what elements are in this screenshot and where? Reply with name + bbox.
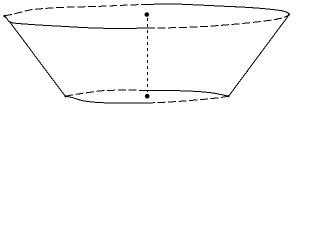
bottom ellipse lower-right arc (dashed, hidden rim) bbox=[147, 96, 229, 103]
junction blob at bottom ellipse right tip bbox=[227, 95, 229, 97]
bottom ellipse lower-left arc (solid rim) bbox=[65, 96, 147, 103]
top ellipse upper-right arc (solid rim) bbox=[147, 4, 290, 14]
junction blob at top ellipse right tip bbox=[288, 13, 290, 15]
central axis (dashed) bbox=[147, 18, 149, 92]
top ellipse upper-left arc (dashed, hidden rim) bbox=[4, 4, 147, 16]
junction blob at bottom ellipse left tip bbox=[64, 95, 66, 97]
top center dot bbox=[145, 12, 150, 17]
left slant side of frustum bbox=[10, 22, 66, 97]
right slant side of frustum bbox=[229, 14, 290, 96]
bottom ellipse upper-right arc (solid rim) bbox=[147, 90, 229, 96]
bottom ellipse upper-left arc (dashed, hidden rim) bbox=[65, 90, 147, 96]
bottom center dot bbox=[145, 94, 150, 99]
top ellipse lower-right arc (dashed, hidden rim) bbox=[147, 14, 290, 28]
top ellipse lower-left arc (solid rim) bbox=[4, 16, 147, 29]
junction blob at top ellipse left tip bbox=[3, 15, 6, 18]
